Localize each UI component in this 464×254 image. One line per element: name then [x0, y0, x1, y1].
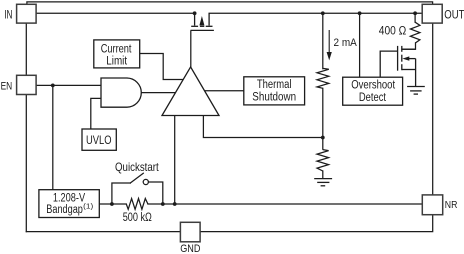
wire EN to AND gate — [36, 84, 101, 86]
wire IN down through EN — [25, 23, 27, 232]
svg-text:Limit: Limit — [106, 55, 127, 67]
transistor Q1 PMOS pass element — [191, 13, 214, 30]
svg-text:500 kΩ: 500 kΩ — [123, 212, 153, 224]
block bandgap reference — [39, 190, 99, 218]
svg-text:Quickstart: Quickstart — [115, 161, 159, 174]
node bandgap-500k left — [110, 202, 114, 206]
svg-text:Bandgap: Bandgap — [46, 204, 83, 216]
resistor R1 upper divider — [317, 68, 329, 88]
pin box NR — [422, 195, 442, 215]
transistor Q2 body arrow — [402, 56, 409, 60]
svg-text:GND: GND — [180, 243, 200, 254]
wire bottom rail to GND box — [26, 231, 180, 233]
wire OUT rail down to overshoot detect — [359, 13, 361, 77]
node OUT rail at overshoot — [358, 11, 362, 15]
svg-text:Thermal: Thermal — [257, 79, 292, 91]
resistor 500 k — [126, 199, 148, 210]
svg-text:Current: Current — [101, 44, 132, 56]
block current limit — [94, 40, 140, 68]
op-amp U1 error amplifier — [162, 67, 219, 116]
svg-text:EN: EN — [1, 80, 13, 92]
wire bandgap to 500k — [99, 203, 126, 205]
node divider tap — [321, 136, 325, 140]
wire PMOS drain rail to OUT — [209, 12, 422, 14]
wire AND output to op-amp — [141, 92, 176, 94]
wire PMOS gate to op-amp output — [190, 31, 192, 67]
svg-text:IN: IN — [4, 8, 12, 22]
svg-text:OUT: OUT — [444, 10, 464, 22]
svg-text:NR: NR — [445, 199, 458, 211]
svg-text:Shutdown: Shutdown — [252, 92, 296, 104]
node IN-PMOS source — [193, 11, 197, 15]
wire current limit to op-amp — [140, 54, 184, 80]
wire UVLO to AND gate — [91, 98, 101, 129]
wire R2 to ground — [322, 171, 324, 178]
block UVLO — [82, 129, 116, 150]
svg-text:UVLO: UVLO — [86, 135, 112, 147]
node OUT rail at divider — [321, 11, 325, 15]
svg-text:400 Ω: 400 Ω — [379, 25, 407, 37]
node OUT rail at 400 ohm — [413, 11, 417, 15]
wire op-amp to thermal shutdown — [204, 90, 243, 92]
wire OUT rail down to 400 ohm — [414, 13, 416, 22]
wire divider node to R2 — [322, 138, 324, 150]
wire op-amp input to divider node — [203, 116, 322, 138]
wire 400 ohm to Q2 drain — [402, 43, 416, 49]
pin box EN — [17, 75, 36, 94]
wire top rail IN to OUT — [27, 2, 433, 4]
wire EN branch down to bandgap — [52, 85, 54, 189]
wire 500k to NR — [148, 203, 422, 205]
wire bottom rail GND to NR — [200, 215, 433, 232]
wire OUT down to NR — [432, 23, 434, 195]
block thermal shutdown — [244, 77, 305, 105]
svg-text:2 mA: 2 mA — [334, 37, 358, 49]
wire op-amp input to feedback node — [174, 116, 176, 205]
ground below R2 — [314, 179, 332, 186]
resistor 400 ohm — [410, 22, 420, 43]
svg-text:Detect: Detect — [359, 92, 387, 104]
block overshoot detect — [343, 77, 403, 105]
pin box OUT — [422, 4, 442, 23]
ground below Q2 — [407, 87, 425, 95]
node 500k right — [161, 202, 165, 206]
transistor Q2 NMOS overshoot pulldown — [380, 46, 415, 86]
svg-text:Overshoot: Overshoot — [351, 80, 395, 92]
svg-text:(1): (1) — [83, 201, 94, 210]
resistor R2 lower divider — [317, 150, 329, 171]
svg-text:1.208-V: 1.208-V — [53, 192, 85, 204]
AND gate U2 — [101, 78, 141, 107]
pin box GND — [180, 222, 200, 242]
transistor Q1 body arrow — [199, 16, 204, 25]
wire OUT rail down to R1 — [322, 13, 324, 68]
node EN branch — [51, 84, 55, 88]
quickstart switch — [112, 173, 163, 204]
2 mA current arrow — [327, 30, 332, 60]
node feedback input — [173, 202, 177, 206]
wire R1 to divider node — [322, 88, 324, 137]
wire IN to PMOS source — [36, 12, 195, 14]
pin box IN — [17, 4, 36, 23]
